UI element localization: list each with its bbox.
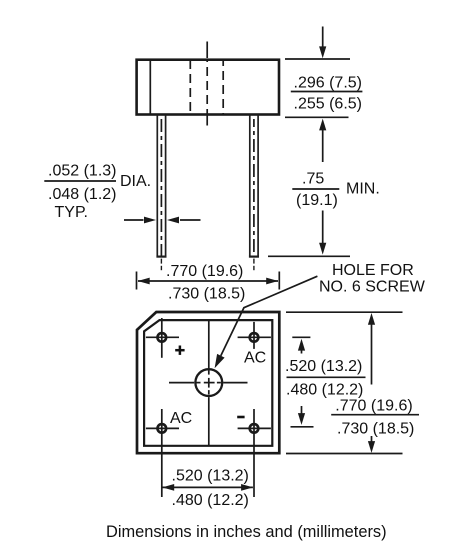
package body outline (side view)	[137, 60, 279, 115]
hole spacing dim down arrow	[298, 406, 305, 425]
svg-text:.052 (1.3): .052 (1.3)	[48, 162, 116, 179]
value label .480 (12.2) right	[286, 382, 363, 399]
label MIN.	[346, 181, 380, 198]
svg-text:AC: AC	[244, 350, 266, 367]
square height dim down arrow	[368, 436, 375, 453]
svg-text:.75: .75	[302, 170, 324, 187]
hole spacing dim top tick	[292, 336, 310, 338]
callout text HOLE FOR	[332, 262, 414, 279]
lead hole top-left (+ terminal)	[146, 318, 179, 358]
value label .520 (13.2) bottom	[172, 468, 249, 485]
svg-text:(19.1): (19.1)	[296, 192, 338, 209]
svg-text:.480 (12.2): .480 (12.2)	[286, 382, 363, 399]
value label .770 (19.6)	[166, 263, 243, 280]
bottom hole spacing dimension line with arrows	[162, 484, 253, 491]
polarity label minus	[237, 416, 244, 419]
fraction bar of square height dimension	[331, 414, 419, 416]
value label .770 (19.6) right	[335, 398, 412, 415]
svg-text:.730 (18.5): .730 (18.5)	[168, 286, 245, 303]
body width dim left extension tick	[136, 272, 138, 290]
svg-text:HOLE FOR: HOLE FOR	[332, 262, 414, 279]
hole spacing dim bottom tick	[291, 426, 314, 428]
square height dim up arrow	[368, 313, 375, 385]
lead length dim down arrow	[319, 211, 326, 255]
body height dim up arrow	[319, 119, 326, 162]
svg-text:MIN.: MIN.	[346, 181, 380, 198]
svg-text:.770 (19.6): .770 (19.6)	[166, 263, 243, 280]
hidden mounting-hole line left	[189, 60, 191, 114]
fraction bar of body height dimension	[291, 91, 363, 93]
extension line at square bottom	[286, 453, 403, 455]
fraction bar of hole spacing dimension	[287, 376, 366, 378]
value label .296 (7.5)	[294, 74, 362, 91]
svg-text:AC: AC	[170, 410, 192, 427]
fraction bar of lead length dimension	[292, 188, 339, 190]
svg-text:.048 (1.2): .048 (1.2)	[48, 186, 116, 203]
svg-text:.520 (13.2): .520 (13.2)	[172, 468, 249, 485]
terminal label AC bottom-left	[170, 410, 192, 427]
extension line at body bottom	[285, 116, 349, 118]
center mounting hole for no. 6 screw	[195, 369, 222, 396]
value label .520 (13.2) right	[285, 358, 362, 375]
package inner edge outline (bottom view)	[144, 320, 272, 446]
callout leader line with arrowhead	[215, 276, 318, 368]
hole spacing dim up arrow	[298, 339, 305, 354]
hidden mounting-hole line right	[222, 60, 224, 114]
value label .255 (6.5)	[294, 95, 362, 112]
right lead centerline	[253, 119, 255, 270]
svg-text:DIA.: DIA.	[120, 173, 151, 190]
terminal label AC top-right	[244, 350, 266, 367]
svg-text:.770 (19.6): .770 (19.6)	[335, 398, 412, 415]
value label .048 (1.2)	[48, 186, 116, 203]
svg-text:TYP.: TYP.	[55, 204, 89, 221]
svg-text:NO. 6 SCREW: NO. 6 SCREW	[319, 279, 426, 296]
extension line at square top	[286, 311, 403, 313]
value label .730 (18.5) right	[337, 420, 414, 437]
lead hole bottom-left (AC terminal)	[146, 409, 179, 497]
svg-text:.255 (6.5): .255 (6.5)	[294, 95, 362, 112]
body chamfer edge line	[149, 59, 151, 115]
svg-text:.296 (7.5): .296 (7.5)	[294, 74, 362, 91]
label DIA.	[120, 173, 151, 190]
body height dim down arrow	[319, 27, 326, 59]
svg-text:.730 (18.5): .730 (18.5)	[337, 420, 414, 437]
caption	[106, 523, 387, 541]
svg-text:Dimensions in inches and (mill: Dimensions in inches and (millimeters)	[106, 523, 387, 541]
lead hole top-right (AC terminal)	[238, 322, 271, 349]
body width dim right extension tick	[278, 272, 280, 290]
lead diameter dimension arrows	[124, 217, 201, 224]
lead hole bottom-right (minus terminal)	[238, 409, 271, 497]
bottom view vertical centerline	[208, 320, 210, 446]
extension line at body top	[285, 58, 350, 60]
label TYP.	[55, 204, 89, 221]
right lead	[249, 115, 259, 257]
svg-text:.480 (12.2): .480 (12.2)	[172, 492, 249, 509]
left lead	[156, 115, 166, 257]
body vertical centerline	[206, 42, 208, 126]
value label .75	[302, 170, 324, 187]
left lead centerline	[160, 119, 162, 270]
fraction bar of lead dia dimension	[44, 180, 116, 182]
value label (19.1)	[296, 192, 338, 209]
lead end reference line	[268, 255, 350, 257]
mounting hole horizontal centerline	[169, 382, 248, 384]
callout text NO. 6 SCREW	[319, 279, 426, 296]
package outline with index chamfer (bottom view)	[137, 312, 279, 453]
value label .480 (12.2) bottom	[172, 492, 249, 509]
value label .052 (1.3)	[48, 162, 116, 179]
value label .730 (18.5)	[168, 286, 245, 303]
body width dimension line with arrows	[138, 278, 279, 285]
polarity label plus	[175, 346, 184, 355]
svg-text:.520 (13.2): .520 (13.2)	[285, 358, 362, 375]
